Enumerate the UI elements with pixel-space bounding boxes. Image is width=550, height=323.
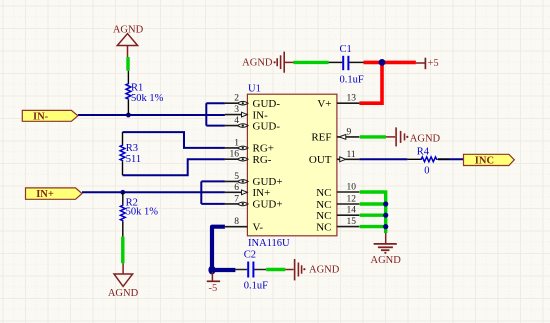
- svg-text:NC: NC: [316, 199, 331, 211]
- svg-text:AGND: AGND: [113, 24, 144, 35]
- svg-text:V-: V-: [253, 222, 264, 234]
- svg-text:IN-: IN-: [33, 111, 49, 122]
- svg-text:AGND: AGND: [242, 58, 273, 69]
- svg-text:13: 13: [347, 94, 357, 104]
- svg-text:GUD+: GUD+: [253, 199, 283, 211]
- svg-text:11: 11: [347, 150, 356, 160]
- svg-text:7: 7: [234, 194, 239, 204]
- svg-text:2: 2: [234, 94, 239, 104]
- svg-text:8: 8: [234, 217, 239, 227]
- svg-text:V+: V+: [317, 98, 331, 110]
- svg-text:0: 0: [424, 165, 429, 176]
- svg-text:GUD-: GUD-: [253, 98, 281, 110]
- svg-text:C1: C1: [340, 44, 352, 55]
- svg-text:RG-: RG-: [253, 154, 272, 166]
- svg-text:6: 6: [234, 183, 239, 193]
- svg-text:12: 12: [347, 195, 357, 205]
- svg-text:OUT: OUT: [309, 154, 332, 166]
- svg-text:9: 9: [347, 127, 352, 137]
- svg-text:AGND: AGND: [410, 133, 441, 144]
- svg-text:0.1uF: 0.1uF: [244, 280, 268, 291]
- svg-text:R4: R4: [417, 146, 430, 157]
- svg-text:0.1uF: 0.1uF: [340, 75, 364, 86]
- svg-text:50k 1%: 50k 1%: [126, 207, 159, 218]
- svg-text:3: 3: [234, 105, 239, 115]
- svg-text:5: 5: [234, 172, 239, 182]
- svg-text:-5: -5: [209, 283, 218, 294]
- svg-text:INA116U: INA116U: [248, 238, 290, 249]
- svg-text:10: 10: [347, 183, 357, 193]
- svg-text:REF: REF: [311, 132, 331, 144]
- svg-text:R3: R3: [126, 143, 138, 154]
- svg-text:NC: NC: [316, 221, 331, 233]
- svg-text:AGND: AGND: [371, 255, 402, 266]
- svg-text:AGND: AGND: [108, 288, 139, 299]
- svg-text:GUD-: GUD-: [253, 120, 281, 132]
- svg-text:14: 14: [347, 206, 357, 216]
- svg-text:50k 1%: 50k 1%: [131, 93, 164, 104]
- svg-text:U1: U1: [248, 84, 261, 95]
- svg-text:INC: INC: [475, 155, 494, 166]
- svg-text:+5: +5: [428, 58, 439, 69]
- svg-text:15: 15: [347, 217, 357, 227]
- svg-text:NC: NC: [316, 210, 331, 222]
- svg-text:511: 511: [126, 154, 141, 165]
- svg-text:1: 1: [234, 138, 239, 148]
- svg-text:IN+: IN+: [253, 187, 271, 199]
- svg-text:NC: NC: [316, 187, 331, 199]
- svg-text:C2: C2: [244, 250, 256, 261]
- svg-text:RG+: RG+: [253, 143, 274, 155]
- svg-text:4: 4: [234, 116, 239, 126]
- svg-text:16: 16: [230, 150, 240, 160]
- svg-text:IN+: IN+: [36, 189, 54, 200]
- svg-text:R1: R1: [131, 83, 143, 94]
- svg-text:AGND: AGND: [309, 265, 340, 276]
